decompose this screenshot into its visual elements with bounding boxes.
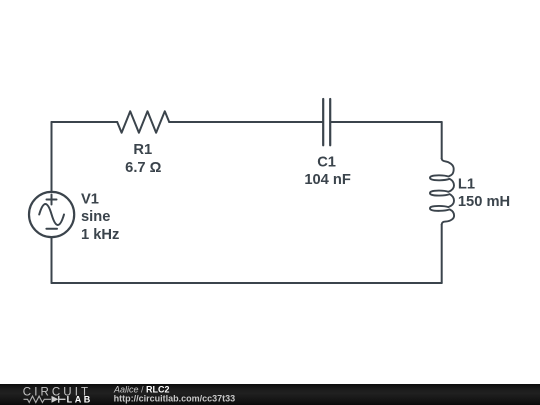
voltage source V1 plus sign <box>47 195 57 205</box>
voltage source V1 circle <box>29 192 74 237</box>
svg-text:sine: sine <box>81 209 110 225</box>
wire top right horizontal (C1 to top-right corner) <box>331 121 442 123</box>
wire top-left horizontal (corner to R1) <box>52 121 118 123</box>
wire left vertical top (V1 to top-left corner) <box>51 122 53 192</box>
capacitor C1 right plate <box>329 99 331 145</box>
resistor R1 <box>117 111 169 132</box>
inductor L1 coil <box>430 159 454 225</box>
voltage source V1 minus sign <box>46 228 57 230</box>
svg-text:1 kHz: 1 kHz <box>81 227 119 243</box>
svg-text:150 mH: 150 mH <box>458 194 510 210</box>
svg-text:L1: L1 <box>458 176 475 192</box>
wire bottom horizontal <box>52 282 442 284</box>
svg-text:R1: R1 <box>133 142 152 158</box>
logo diode <box>52 396 59 403</box>
wire right vertical bottom (L1 to bottom-right corner) <box>441 224 443 283</box>
wire left vertical bottom (V1 to bottom-left corner) <box>51 237 53 283</box>
wire top middle (R1 to C1) <box>169 121 322 123</box>
svg-text:6.7 Ω: 6.7 Ω <box>125 160 161 176</box>
svg-text:V1: V1 <box>81 191 99 207</box>
capacitor C1 left plate <box>322 99 324 145</box>
voltage source V1 sine wave <box>39 204 64 225</box>
footer bar <box>0 384 540 405</box>
logo resistor zigzag <box>24 396 52 402</box>
svg-text:104 nF: 104 nF <box>304 172 351 188</box>
wire right vertical top (corner to L1) <box>441 122 443 159</box>
svg-text:C1: C1 <box>317 154 336 170</box>
